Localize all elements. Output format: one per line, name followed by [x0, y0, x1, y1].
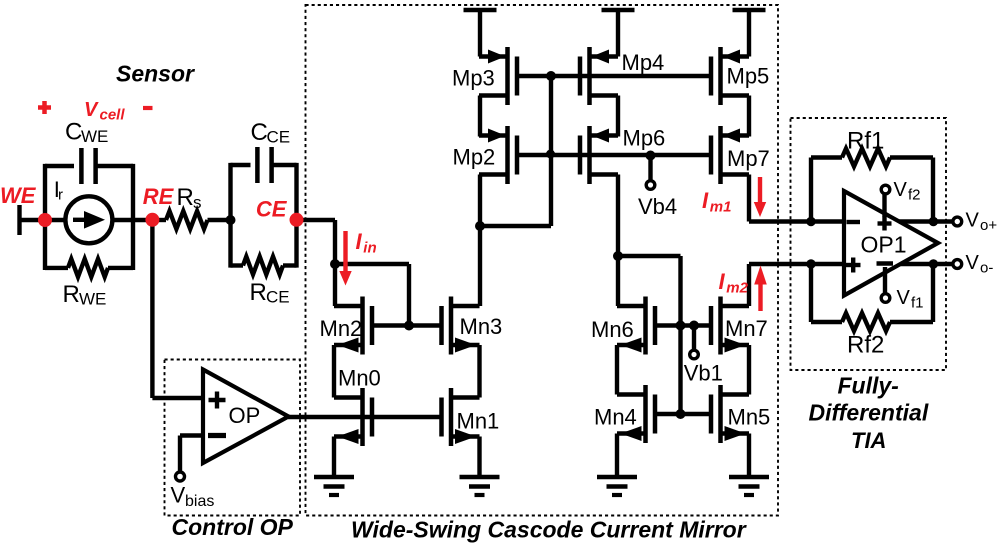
svg-text:Mp2: Mp2: [453, 145, 496, 170]
wire Vf2 stub: [882, 194, 886, 217]
svg-text:WE: WE: [79, 290, 106, 309]
label Mn1: [457, 409, 500, 434]
svg-text:Mp6: Mp6: [623, 126, 666, 151]
svg-text:R: R: [250, 279, 267, 306]
section label Differential: [809, 400, 929, 426]
ground Mn5: [729, 477, 769, 495]
wire CE to mirror input: [297, 220, 336, 306]
svg-text:CE: CE: [267, 128, 291, 147]
wire WE cell bottom branch: [45, 266, 133, 270]
wire Rs to CE cell: [208, 218, 233, 222]
label Im2: [719, 269, 749, 297]
node junction Rs/CE-cell: [226, 215, 236, 225]
node junction bias column/gates: [676, 321, 686, 331]
resistor RWE: [68, 259, 108, 277]
terminal Vbias: [176, 472, 185, 481]
current arrow Im2: [754, 266, 767, 312]
svg-text:f1: f1: [911, 295, 924, 312]
label Rf1: [847, 128, 884, 155]
box Fully-Differential TIA: [791, 118, 947, 370]
svg-text:r: r: [58, 187, 63, 204]
terminal Vf2: [881, 185, 890, 194]
svg-text:WE: WE: [81, 127, 108, 146]
transistor Mp7: [711, 126, 749, 184]
node junction Mn6 drain link: [613, 251, 623, 261]
box Control OP: [165, 360, 301, 516]
node CE: [290, 213, 304, 227]
label Rf2: [847, 332, 884, 359]
wire Mn6 source to Mn4 drain: [615, 345, 619, 395]
wire Mn7 drain to TIA (Im2): [749, 264, 844, 306]
supply bar Mp4: [602, 10, 635, 57]
svg-text:Rf1: Rf1: [847, 128, 884, 155]
feedback loop Rf2 wires: [811, 264, 933, 322]
node junction Rf2 tap: [806, 259, 815, 268]
svg-text:CE: CE: [266, 288, 290, 307]
wire op-amp - to Vbias: [180, 436, 203, 472]
svg-text:Mn2: Mn2: [320, 316, 363, 341]
op-amp OP1 upper - mark: [847, 220, 861, 224]
ground Mn1: [460, 477, 500, 495]
label Mp7: [727, 146, 770, 171]
wire RE to Rs: [152, 218, 166, 222]
svg-text:TIA: TIA: [851, 428, 886, 453]
node A (Mp2/Mn3 drains): [475, 221, 485, 231]
wire Mp2 drain to node A: [478, 175, 482, 227]
wire Mp6 drain to Mn6 drain: [616, 175, 620, 307]
svg-text:R: R: [63, 281, 80, 308]
svg-text:V: V: [966, 210, 980, 232]
wire gate rail Mp2/Mp6/Mp7: [517, 153, 712, 157]
op-amp OP1 upper + mark: [878, 217, 892, 231]
label Mn5: [728, 405, 771, 430]
wire op-amp output to Mn0/Mn1 gates: [288, 415, 442, 419]
label CWE: [65, 119, 108, 147]
section label Fully-: [838, 373, 899, 399]
svg-text:V: V: [966, 252, 980, 274]
capacitor CWE: [81, 148, 95, 184]
ground Mn0: [314, 477, 354, 495]
label Vo-: [966, 252, 994, 277]
svg-text:OP1: OP1: [861, 232, 907, 258]
wire WE to source: [45, 218, 66, 222]
wire source to RE: [112, 218, 152, 222]
wire OP1 output Vo-: [900, 262, 952, 266]
svg-text:Mn0: Mn0: [338, 366, 381, 391]
transistor Mp6: [580, 126, 618, 184]
transistor Mn4: [617, 385, 655, 443]
wire Mp4 drain to Mp6 source: [616, 96, 620, 137]
node junction gate rail 1: [546, 71, 556, 81]
svg-text:I: I: [356, 229, 363, 254]
svg-text:Sensor: Sensor: [116, 61, 195, 87]
wire Mn5 source to ground: [747, 434, 751, 478]
svg-text:V: V: [894, 179, 908, 201]
resistor Rf2: [842, 313, 890, 331]
section label TIA: [851, 428, 886, 453]
node WE: [38, 213, 52, 227]
transistor Mn0: [334, 388, 372, 446]
transistor Mn5: [711, 385, 749, 443]
svg-text:Vb4: Vb4: [638, 194, 677, 219]
svg-text:cell: cell: [100, 107, 126, 124]
wire gate rail Mn6/Mn7: [655, 323, 713, 327]
node junction Vb4 tap: [646, 151, 656, 161]
label Mn0: [338, 366, 381, 391]
wire input to Mn2/Mn3 gates: [335, 264, 409, 326]
transistor Mn6: [617, 297, 655, 355]
svg-text:m1: m1: [710, 199, 732, 216]
wire gate rail Mn4/Mn5: [655, 412, 713, 416]
label CCE: [251, 119, 291, 147]
box Wide-Swing Cascode Current Mirror: [306, 5, 779, 516]
op-amp OP: [203, 370, 289, 464]
wire RE down to op-amp +: [152, 220, 203, 398]
svg-text:m2: m2: [726, 280, 748, 297]
svg-text:Mp4: Mp4: [622, 50, 665, 75]
node junction Mn2/Mn3 gates: [404, 321, 414, 331]
wire WE cell right branch: [131, 164, 135, 270]
svg-text:C: C: [251, 119, 268, 146]
node junction Mn4/Mn5 gates: [676, 409, 686, 419]
label Vcell: [84, 99, 125, 124]
node RE: [145, 213, 159, 227]
transistor Mp3: [479, 47, 517, 105]
svg-text:Mn5: Mn5: [728, 405, 771, 430]
label RCE: [250, 279, 290, 307]
label + (cell polarity): [38, 101, 51, 114]
svg-text:Mp3: Mp3: [452, 66, 495, 91]
label - (cell polarity): [143, 106, 153, 110]
svg-text:Wide-Swing Cascode Current Mir: Wide-Swing Cascode Current Mirror: [351, 517, 747, 543]
svg-text:bias: bias: [185, 493, 214, 510]
label Im1: [702, 188, 731, 216]
label Mp5: [727, 64, 770, 89]
svg-text:Vb1: Vb1: [684, 361, 723, 386]
label Mn6: [591, 317, 634, 342]
current arrow Im1: [754, 177, 766, 217]
label Vf1: [897, 287, 924, 312]
wire link to bias column: [618, 256, 681, 414]
node junction output Vo-: [929, 259, 938, 268]
label Vo+: [966, 210, 998, 235]
node junction input split: [330, 259, 340, 269]
svg-text:V: V: [897, 287, 911, 309]
svg-text:OP: OP: [229, 403, 261, 428]
resistor Rf1: [842, 149, 890, 167]
node junction Rf1 tap: [806, 217, 815, 226]
wire Mp3 drain to Mp2 source: [478, 96, 482, 137]
svg-text:V: V: [84, 99, 99, 121]
resistor RCE: [243, 257, 283, 275]
wire Vb1 stub: [692, 326, 696, 350]
label Mn3: [460, 314, 503, 339]
supply bar Mp5: [733, 10, 766, 57]
wire node A to Mn3 drain: [478, 226, 482, 306]
label Vb4: [638, 194, 677, 219]
ground Mn4: [597, 477, 637, 495]
op-amp OP - input mark: [208, 433, 226, 438]
svg-text:Mn4: Mn4: [594, 405, 637, 430]
svg-text:o-: o-: [980, 260, 993, 277]
svg-text:CE: CE: [256, 197, 288, 222]
section label Wide-Swing Cascode Current Mirror: [351, 517, 747, 543]
transistor Mn1: [442, 388, 480, 446]
terminal Vf1: [881, 294, 890, 303]
label Rs: [177, 184, 202, 212]
svg-text:in: in: [363, 240, 376, 257]
op-amp OP1 lower + mark: [846, 258, 861, 273]
svg-text:Rf2: Rf2: [847, 332, 884, 359]
op-amp OP1 lower - mark: [877, 261, 894, 265]
wire WE cell left branch: [43, 164, 47, 270]
wire CE cell right branch: [294, 163, 298, 268]
label Mp2: [453, 145, 496, 170]
wire Vb4 stub: [648, 155, 652, 180]
terminal Vb4: [646, 181, 655, 190]
transistor Mp4: [580, 47, 618, 105]
wire diode link Mp3 gates to drain: [480, 76, 551, 226]
wire gate rail Mp3/Mp4/Mp5: [517, 74, 712, 78]
terminal WE stub: [20, 205, 41, 235]
wire OP1 output Vo+: [899, 219, 953, 223]
transistor Mn3: [442, 297, 480, 355]
svg-text:WE: WE: [0, 183, 37, 208]
wire Mn7 source to Mn5 drain: [747, 345, 751, 395]
svg-text:o+: o+: [980, 217, 997, 234]
node junction output Vo+: [929, 217, 938, 226]
op-amp OP1: [844, 191, 938, 296]
label Iin: [356, 229, 377, 257]
wire WE cell top branch: [45, 164, 133, 168]
terminal Vo+: [953, 217, 962, 226]
label Vf2: [894, 179, 921, 204]
terminal Vo-: [953, 260, 962, 269]
current arrow Iin: [339, 231, 351, 286]
terminal Vb1: [690, 350, 699, 359]
svg-text:Mn7: Mn7: [725, 316, 768, 341]
transistor Mp5: [711, 47, 749, 105]
label RE: [143, 184, 175, 209]
feedback loop Rf1 wires: [811, 158, 933, 222]
svg-text:Mp5: Mp5: [727, 64, 770, 89]
resistor Rs: [166, 211, 208, 229]
wire Mp7 drain to TIA (Im1): [749, 175, 844, 222]
wire CE cell left branch: [228, 163, 232, 268]
wire Mn3 source to Mn1 drain: [477, 345, 481, 398]
section label Control OP: [172, 514, 294, 540]
label Mp4: [622, 50, 665, 75]
label Vb1: [684, 361, 723, 386]
op-amp OP + input mark: [209, 392, 226, 409]
current source Ir: [65, 196, 112, 243]
svg-text:Fully-: Fully-: [838, 373, 899, 399]
wire CE cell bottom branch: [231, 263, 297, 267]
svg-text:RE: RE: [143, 184, 175, 209]
svg-text:C: C: [65, 119, 82, 146]
label WE: [0, 183, 37, 208]
capacitor CCE: [257, 147, 271, 183]
wire Mn0 source to ground: [332, 437, 336, 478]
label Ir: [54, 177, 63, 204]
svg-text:I: I: [719, 269, 726, 294]
label Mn7: [725, 316, 768, 341]
label OP: [229, 403, 261, 428]
label RWE: [63, 281, 107, 309]
svg-text:Mn1: Mn1: [457, 409, 500, 434]
label Mp6: [623, 126, 666, 151]
svg-text:R: R: [177, 184, 194, 211]
transistor Mn7: [711, 297, 749, 355]
svg-text:Mn6: Mn6: [591, 317, 634, 342]
transistor Mp2: [479, 126, 517, 184]
label OP1: [861, 232, 907, 258]
label Vbias: [171, 483, 215, 511]
wire Vf1 stub: [883, 267, 887, 294]
wire gate rail Mn2/Mn3: [372, 323, 442, 327]
wire Mn4 source to ground: [615, 434, 619, 478]
transistor Mn2: [334, 297, 372, 355]
wire Mp5 drain to Mp7 source: [747, 96, 751, 137]
svg-text:Differential: Differential: [809, 400, 929, 426]
label Mp3: [452, 66, 495, 91]
svg-text:V: V: [171, 483, 186, 508]
section label Sensor: [116, 61, 195, 87]
wire CE cell top branch: [231, 163, 297, 167]
label CE: [256, 197, 288, 222]
node junction rail2 crossing: [546, 150, 555, 159]
svg-text:I: I: [702, 188, 709, 213]
wire Mn1 source to ground: [477, 437, 481, 478]
node junction Vb1 tap: [689, 321, 699, 331]
wire Mn2 source to Mn0 drain: [332, 345, 336, 398]
label Mn2: [320, 316, 363, 341]
label Mn4: [594, 405, 637, 430]
supply bar Mp3: [464, 10, 497, 57]
svg-text:Mn3: Mn3: [460, 314, 503, 339]
svg-text:f2: f2: [908, 187, 921, 204]
svg-text:Mp7: Mp7: [727, 146, 770, 171]
svg-text:Control OP: Control OP: [172, 514, 294, 540]
